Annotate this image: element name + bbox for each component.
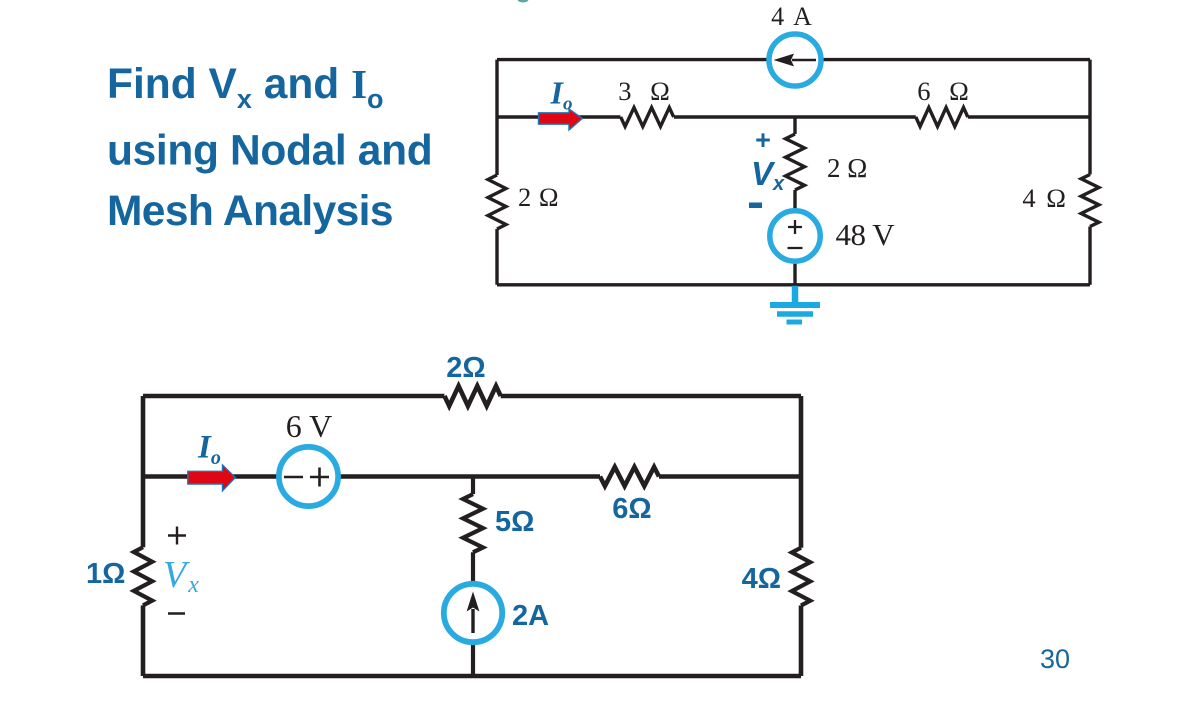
svg-text:6 Ω: 6 Ω (917, 76, 975, 106)
svg-text:4 A: 4 A (771, 2, 814, 31)
svg-text:5Ω: 5Ω (495, 506, 534, 538)
svg-text:2 Ω: 2 Ω (827, 153, 867, 183)
svg-text:4 Ω: 4 Ω (1022, 183, 1068, 213)
svg-text:2A: 2A (512, 600, 549, 632)
svg-text:48 V: 48 V (836, 217, 896, 252)
svg-text:6Ω: 6Ω (612, 493, 651, 525)
svg-text:1Ω: 1Ω (86, 558, 125, 590)
svg-text:6 V: 6 V (286, 408, 333, 444)
svg-text:using Nodal and: using Nodal and (107, 128, 432, 175)
svg-text:+: + (755, 125, 771, 155)
svg-text:3 Ω: 3 Ω (618, 76, 676, 106)
svg-text:2 Ω: 2 Ω (518, 182, 559, 212)
svg-text:4Ω: 4Ω (742, 563, 781, 595)
svg-text:2Ω: 2Ω (446, 352, 485, 384)
svg-text:Mesh Analysis: Mesh Analysis (107, 188, 393, 235)
svg-text:30: 30 (1040, 644, 1070, 674)
